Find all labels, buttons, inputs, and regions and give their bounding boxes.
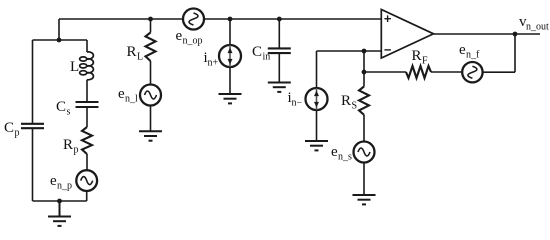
wire between Cs and Rp — [86, 107, 88, 127]
resistor RS — [359, 87, 369, 115]
wire feedback left segment — [364, 71, 406, 73]
wire en_s to ground — [363, 163, 365, 196]
source en_l — [140, 85, 161, 106]
svg-text:L: L — [70, 59, 79, 75]
wire left branch upper — [32, 40, 34, 123]
svg-text:e: e — [176, 28, 183, 44]
label RF — [412, 48, 429, 67]
wire output — [434, 33, 541, 35]
svg-text:n_s: n_s — [338, 152, 352, 163]
wire en_p to bottom rail — [86, 191, 88, 201]
svg-text:s: s — [67, 107, 71, 118]
wire RF to en_f — [431, 71, 462, 73]
svg-text:n_f: n_f — [466, 50, 480, 61]
label in+ — [204, 50, 219, 69]
label vn_out — [519, 14, 549, 33]
svg-text:n_p: n_p — [57, 181, 72, 192]
wire en_f to output column — [483, 71, 515, 73]
label en_s — [331, 144, 352, 163]
source en_p — [76, 170, 97, 191]
label Rp — [63, 137, 79, 156]
source en_f — [462, 62, 482, 82]
svg-text:n−: n− — [292, 98, 303, 109]
resistor RL — [146, 33, 156, 62]
label en_op — [176, 28, 203, 47]
op-amp U1 — [381, 9, 433, 58]
label en_p — [50, 173, 72, 192]
capacitor Cs — [76, 102, 99, 107]
wire in+ top stub — [229, 19, 231, 45]
wire top rail right segment — [204, 18, 381, 20]
svg-text:F: F — [422, 56, 428, 67]
svg-text:R: R — [412, 48, 422, 64]
svg-text:C: C — [252, 44, 262, 60]
wire top-left drop — [58, 19, 60, 40]
capacitor Cin — [268, 48, 291, 53]
node junction top-left — [57, 38, 62, 43]
wire left branch lower — [32, 128, 34, 201]
ground under in- — [305, 141, 328, 150]
wire RL top stub — [150, 19, 152, 33]
svg-text:in: in — [263, 52, 271, 63]
current source in- — [306, 88, 328, 110]
svg-text:n_l: n_l — [125, 94, 138, 105]
label in- — [288, 90, 303, 109]
svg-text:e: e — [459, 42, 466, 58]
node junction minus/RS — [362, 49, 367, 54]
ground under Cin — [268, 83, 291, 92]
svg-text:C: C — [4, 120, 14, 136]
label Cp — [4, 120, 20, 139]
svg-text:C: C — [56, 99, 66, 115]
wire RL to en_l — [150, 61, 152, 85]
wire inverting input — [317, 50, 382, 52]
resistor Rp — [82, 127, 92, 154]
wire Cin to ground — [278, 53, 280, 82]
svg-text:n+: n+ — [208, 58, 219, 69]
node junction in+ tap — [228, 17, 233, 22]
wire Cin top stub — [278, 19, 280, 48]
source en_op — [183, 9, 204, 30]
svg-text:R: R — [341, 93, 351, 109]
wire bottom rail — [33, 200, 87, 202]
svg-text:R: R — [63, 137, 73, 153]
resistor RF — [406, 66, 431, 78]
inductor L — [80, 52, 94, 80]
node junction feedback tap — [362, 70, 367, 75]
node junction RL tap — [148, 17, 153, 22]
svg-text:n_out: n_out — [526, 22, 549, 33]
svg-text:n_op: n_op — [183, 36, 203, 47]
node junction Cin tap — [277, 17, 282, 22]
ground under en_s — [353, 195, 376, 204]
svg-text:R: R — [127, 44, 137, 60]
wire upper horizontal y=40 — [33, 39, 88, 41]
wire en_l to ground — [150, 106, 152, 132]
ground bottom-left — [48, 201, 71, 226]
node junction output — [513, 32, 518, 37]
svg-text:p: p — [74, 145, 79, 156]
label RS — [341, 93, 357, 112]
label Cs — [56, 99, 71, 118]
label en_l — [118, 86, 138, 105]
wire top rail left segment — [59, 18, 183, 20]
wire in+ to ground — [229, 67, 231, 94]
opamp plus sign — [384, 15, 391, 22]
wire RS column upper — [363, 51, 365, 87]
svg-text:L: L — [137, 52, 143, 63]
wire feedback riser — [514, 34, 516, 72]
svg-text:p: p — [15, 128, 20, 139]
node junction bottom — [57, 199, 62, 204]
wire between L and Cs — [86, 80, 88, 102]
svg-text:e: e — [50, 173, 57, 189]
svg-text:S: S — [352, 101, 358, 112]
opamp minus sign — [384, 49, 391, 51]
current source in+ — [219, 45, 241, 67]
wire right branch top stub — [86, 40, 88, 52]
wire in- drop — [316, 51, 318, 88]
svg-text:e: e — [118, 86, 125, 102]
capacitor Cp — [21, 124, 44, 128]
wire between Rp and en_p — [86, 154, 88, 170]
wire RS to en_s — [363, 115, 365, 142]
ground under en_l — [139, 131, 162, 140]
svg-text:e: e — [331, 144, 338, 160]
label en_f — [459, 42, 480, 61]
label Cin — [252, 44, 270, 63]
wire in- to ground — [316, 110, 318, 141]
ground under in+ — [219, 94, 242, 103]
source en_s — [354, 142, 375, 163]
label RL — [127, 44, 144, 63]
